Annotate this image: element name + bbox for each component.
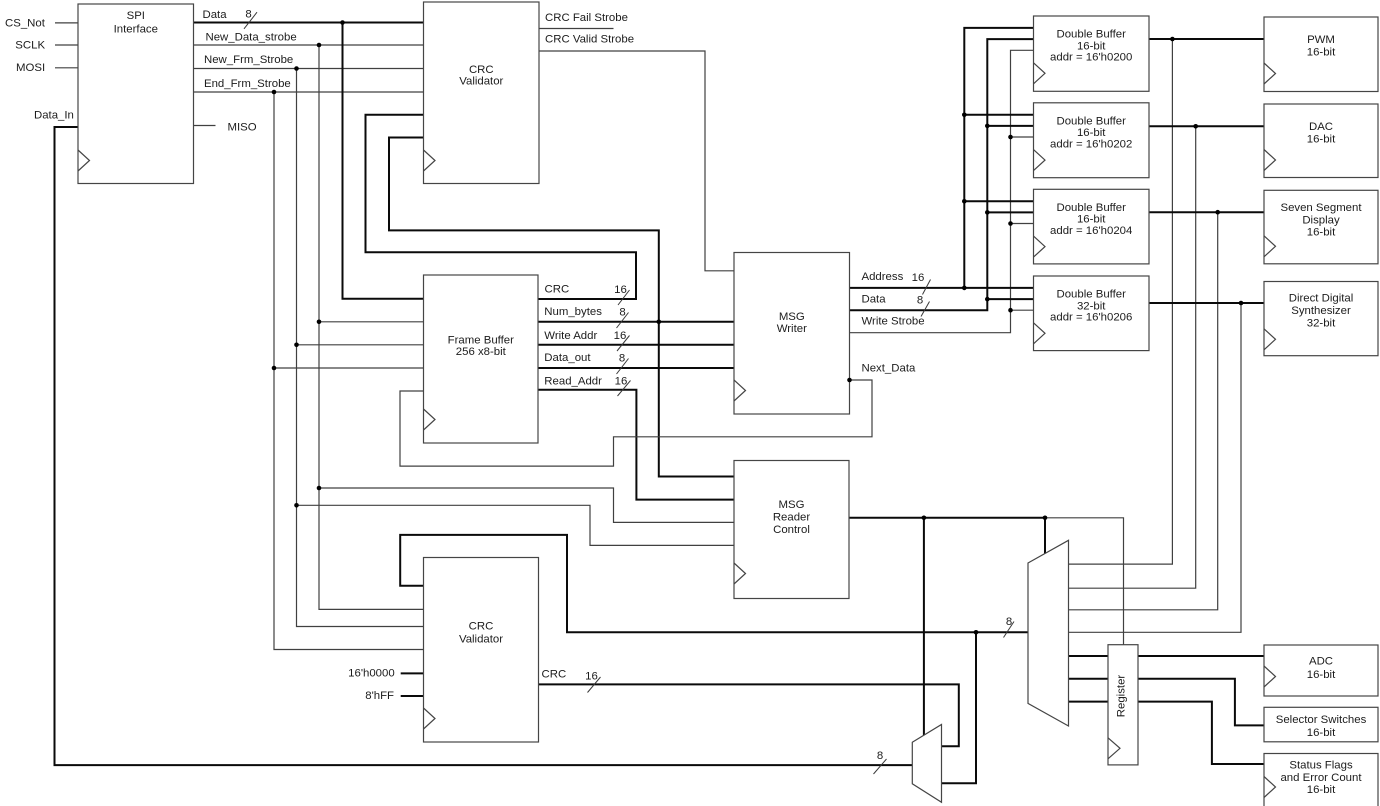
svg-text:Display: Display xyxy=(1302,214,1340,226)
label Data msg xyxy=(862,294,887,306)
label 16 crc2 xyxy=(585,670,598,682)
node New_Frm FB tap xyxy=(294,343,299,348)
label SCLK xyxy=(15,39,45,51)
wire Data bus SPI to CRC Validator U2 xyxy=(194,22,424,24)
svg-text:Data_In: Data_In xyxy=(34,109,74,121)
svg-text:8: 8 xyxy=(877,750,883,762)
svg-text:CRC Valid Strobe: CRC Valid Strobe xyxy=(545,34,634,46)
wire mux input 3 from Seven Segment net xyxy=(1069,212,1218,610)
slash Num_bytes 8 xyxy=(617,313,629,329)
svg-text:Read_Addr: Read_Addr xyxy=(544,375,602,387)
label MISO xyxy=(228,122,257,134)
mux big readback selector xyxy=(1028,540,1069,726)
label 8 mux out xyxy=(1006,616,1012,628)
wire CRC bus Frame Buffer to CRC Validator U2 xyxy=(366,115,637,299)
node New_Frm reader tap xyxy=(294,503,299,508)
svg-text:Data: Data xyxy=(203,9,228,21)
label Num_bytes xyxy=(544,306,602,318)
slash Data_out 8 xyxy=(617,359,629,375)
wire Write Strobe MSG Writer to double buffers xyxy=(850,50,1034,332)
node Data tap xyxy=(340,20,345,25)
block MSG Writer xyxy=(734,253,850,415)
node Address tap DB4 xyxy=(962,286,967,291)
wire Data_out bus to MSG Writer xyxy=(538,367,734,369)
svg-text:End_Frm_Strobe: End_Frm_Strobe xyxy=(204,78,291,90)
svg-text:CRC: CRC xyxy=(542,669,567,681)
label 16'h0000 xyxy=(348,667,395,679)
svg-text:Selector Switches: Selector Switches xyxy=(1276,714,1367,726)
node Num_bytes tap xyxy=(657,320,662,325)
node End_Frm FB tap xyxy=(272,366,277,371)
svg-text:16-bit: 16-bit xyxy=(1307,133,1336,145)
svg-text:16-bit: 16-bit xyxy=(1307,227,1336,239)
svg-text:8: 8 xyxy=(245,9,251,21)
block Register xyxy=(1108,645,1138,765)
svg-text:Double Buffer: Double Buffer xyxy=(1056,289,1126,301)
wire Num_bytes loop to CRC Validator U2 xyxy=(389,138,659,322)
block Double Buffer DB1 addr 16'h0200 xyxy=(1034,16,1150,91)
slash Read_Addr 16 xyxy=(618,381,631,397)
svg-text:Address: Address xyxy=(862,271,904,283)
node WS tap DB4 xyxy=(1008,308,1013,313)
label 16 raddr xyxy=(615,376,628,388)
wire 16'h0000 stub xyxy=(401,672,424,674)
wire Address stub DB2 xyxy=(964,114,1033,116)
wire Num_bytes bus to MSG Writer xyxy=(538,321,734,323)
svg-text:16'h0000: 16'h0000 xyxy=(348,667,395,679)
label 16 crc fb xyxy=(614,284,627,296)
node select small mux tap xyxy=(922,516,927,521)
wire Write Addr bus to MSG Writer xyxy=(538,344,734,346)
wire New_Frm_Strobe SPI to CRC Validator U2 xyxy=(194,68,424,70)
wire MOSI stub xyxy=(55,67,78,69)
node End_Frm tap xyxy=(272,90,277,95)
label Data_In xyxy=(34,109,74,121)
slash CRC2 16 xyxy=(588,677,601,693)
wire Address stub DB3 xyxy=(964,200,1033,202)
svg-text:Frame Buffer: Frame Buffer xyxy=(448,334,514,346)
svg-text:16-bit: 16-bit xyxy=(1307,784,1336,796)
slash CRC 16 xyxy=(618,290,630,305)
svg-text:8'hFF: 8'hFF xyxy=(365,690,394,702)
svg-text:addr = 16'h0206: addr = 16'h0206 xyxy=(1050,312,1132,324)
wire Address bus MSG Writer to DB4 xyxy=(850,287,1034,289)
svg-text:Control: Control xyxy=(773,524,810,536)
label CRC crc2 xyxy=(542,669,567,681)
wire Data_In from small mux to SPI xyxy=(55,127,913,765)
svg-text:SCLK: SCLK xyxy=(15,39,45,51)
svg-text:and Error Count: and Error Count xyxy=(1280,772,1362,784)
svg-text:Seven Segment: Seven Segment xyxy=(1280,202,1362,214)
svg-text:MISO: MISO xyxy=(228,122,257,134)
wire Num_bytes drop to MSG Reader Control xyxy=(659,322,734,477)
svg-text:addr = 16'h0202: addr = 16'h0202 xyxy=(1050,138,1132,150)
label CS_Not xyxy=(5,17,46,29)
node mux output branch tap xyxy=(974,630,979,635)
wire CRC Valid Strobe to MSG Writer xyxy=(539,51,735,271)
label CRC fb xyxy=(545,283,570,295)
node PWM net tap xyxy=(1170,37,1175,42)
svg-text:Num_bytes: Num_bytes xyxy=(544,306,602,318)
wire mux output branch to small mux xyxy=(942,632,977,783)
svg-text:addr = 16'h0200: addr = 16'h0200 xyxy=(1050,52,1132,64)
wire select to big mux xyxy=(1044,518,1046,554)
svg-text:Status Flags: Status Flags xyxy=(1289,759,1353,771)
svg-text:Write Addr: Write Addr xyxy=(544,330,597,342)
wire Data bus drop to Frame Buffer xyxy=(343,23,424,299)
block CRC Validator U2 xyxy=(424,2,540,184)
wire ADC through register to mux xyxy=(1069,655,1265,657)
svg-text:MSG: MSG xyxy=(779,311,805,323)
wire 8'hFF stub xyxy=(401,695,424,697)
slash small mux 8 xyxy=(874,759,887,774)
svg-text:16: 16 xyxy=(614,284,627,296)
svg-text:8: 8 xyxy=(619,353,625,365)
label New_Data_strobe xyxy=(206,32,297,44)
label End_Frm_Strobe xyxy=(204,78,291,90)
label Read_Addr xyxy=(544,375,602,387)
label MOSI xyxy=(16,62,45,74)
svg-text:16: 16 xyxy=(585,670,598,682)
mux small MISO selector xyxy=(912,725,941,803)
label Next_Data xyxy=(862,363,916,375)
svg-text:Validator: Validator xyxy=(459,76,503,88)
wire Data stub DB2 xyxy=(987,125,1033,127)
node Data tap DB2 xyxy=(985,124,990,129)
wire New_Data_strobe branch to MSG Reader Control xyxy=(319,488,734,522)
node DAC net tap xyxy=(1193,124,1198,129)
svg-text:CS_Not: CS_Not xyxy=(5,17,46,29)
svg-text:Direct Digital: Direct Digital xyxy=(1289,293,1354,305)
svg-text:Synthesizer: Synthesizer xyxy=(1291,305,1351,317)
block Seven Segment Display 16-bit xyxy=(1264,190,1378,263)
block Selector Switches 16-bit xyxy=(1264,707,1378,742)
svg-text:Validator: Validator xyxy=(459,633,503,645)
label 8'hFF xyxy=(365,690,394,702)
wire Address bus riser to DB1 xyxy=(964,28,1033,288)
svg-text:16-bit: 16-bit xyxy=(1307,46,1336,58)
node 7seg net tap xyxy=(1215,210,1220,215)
svg-text:SPI: SPI xyxy=(127,10,145,22)
label Write Strobe xyxy=(862,315,925,327)
block SPI Interface xyxy=(78,4,194,184)
node WS tap DB3 xyxy=(1008,221,1013,226)
wire mux input 2 from DAC net xyxy=(1069,126,1196,588)
node Address tap DB3 xyxy=(962,199,967,204)
block CRC Validator U6 xyxy=(424,558,539,743)
wire New_Data_strobe branch to Frame Buffer xyxy=(319,321,424,323)
label Data xyxy=(203,9,228,21)
svg-text:ADC: ADC xyxy=(1309,656,1333,668)
wire register clock from MSG Reader Control xyxy=(1045,518,1124,645)
node select big mux tap xyxy=(1043,516,1048,521)
wire mux input 1 from PWM net xyxy=(1069,39,1173,564)
label 8 data xyxy=(245,9,251,21)
node New_Data tap xyxy=(317,43,322,48)
label New_Frm_Strobe xyxy=(204,54,293,66)
wire Data stub DB4 xyxy=(987,298,1033,300)
svg-text:Next_Data: Next_Data xyxy=(862,363,916,375)
svg-text:16: 16 xyxy=(912,272,925,284)
block DAC 16-bit xyxy=(1264,104,1378,178)
label Address xyxy=(862,271,904,283)
svg-text:32-bit: 32-bit xyxy=(1307,317,1336,329)
wire CS_Not stub xyxy=(55,22,78,24)
wire Selector Switches through register to mux xyxy=(1069,679,1265,726)
wire select to small mux xyxy=(923,518,925,736)
label CRC Valid Strobe xyxy=(545,34,634,46)
svg-text:16-bit: 16-bit xyxy=(1307,669,1336,681)
svg-text:CRC Fail Strobe: CRC Fail Strobe xyxy=(545,12,628,24)
wire New_Data_strobe drop to CRC Validator U6 xyxy=(319,45,424,609)
svg-text:Data_out: Data_out xyxy=(544,352,591,364)
wire SCLK stub xyxy=(55,44,78,46)
node New_Data FB tap xyxy=(317,320,322,325)
node Address tap DB2 xyxy=(962,113,967,118)
wire End_Frm_Strobe SPI to CRC Validator U2 xyxy=(194,91,424,93)
svg-text:Writer: Writer xyxy=(777,323,807,335)
wire End_Frm_Strobe branch to Frame Buffer xyxy=(274,367,424,369)
wire MSG Reader Control select output xyxy=(849,517,1045,519)
svg-text:256 x8-bit: 256 x8-bit xyxy=(456,346,507,358)
wire DB4 output to DDS xyxy=(1149,302,1264,304)
svg-text:PWM: PWM xyxy=(1307,34,1335,46)
wire Status Flags through register to mux xyxy=(1069,702,1265,764)
block Frame Buffer 256 x8-bit xyxy=(424,275,539,443)
wire New_Data_strobe SPI to CRC Validator U2 xyxy=(194,44,424,46)
wire New_Frm_Strobe drop to CRC Validator U6 xyxy=(297,69,424,627)
slash Data 8 xyxy=(244,12,257,29)
svg-text:16: 16 xyxy=(614,330,627,342)
svg-text:8: 8 xyxy=(619,307,625,319)
node Data tap DB3 xyxy=(985,210,990,215)
svg-text:CRC: CRC xyxy=(545,283,570,295)
wire mux output bus to CRC Validator U6 xyxy=(400,535,1028,632)
label 8 data msg xyxy=(917,295,923,307)
block Double Buffer DB3 addr 16'h0204 xyxy=(1034,189,1150,264)
wire CRC Fail Strobe stub xyxy=(539,28,614,30)
svg-text:CRC: CRC xyxy=(469,621,494,633)
wire New_Frm_Strobe branch to Frame Buffer xyxy=(297,344,424,346)
label 8 dout xyxy=(619,353,625,365)
block MSG Reader Control xyxy=(734,461,849,599)
svg-text:8: 8 xyxy=(917,295,923,307)
svg-text:16: 16 xyxy=(615,376,628,388)
node New_Data reader tap xyxy=(317,486,322,491)
slash Data 8 msg xyxy=(921,302,930,317)
wire DB1 output to PWM xyxy=(1149,38,1264,40)
label CRC Fail Strobe xyxy=(545,12,628,24)
svg-text:Write Strobe: Write Strobe xyxy=(862,315,925,327)
slash mux output 8 xyxy=(1004,622,1015,638)
label Data_out xyxy=(544,352,591,364)
node New_Frm tap xyxy=(294,66,299,71)
svg-text:Data: Data xyxy=(862,294,887,306)
wire CRC bus CRC Validator U6 to small mux xyxy=(539,684,959,746)
block Double Buffer DB4 addr 16'h0206 xyxy=(1034,276,1150,351)
label 16 waddr xyxy=(614,330,627,342)
wire Write Strobe stub DB4 xyxy=(1011,309,1034,311)
wire Next_Data loop to Frame Buffer xyxy=(400,380,872,466)
block PWM 16-bit xyxy=(1264,17,1378,92)
wire End_Frm_Strobe drop to CRC Validator U6 xyxy=(274,92,424,650)
label 16 address xyxy=(912,272,925,284)
wire Write Strobe stub DB3 xyxy=(1011,223,1034,225)
wire New_Frm_Strobe branch to MSG Reader Control xyxy=(297,505,735,545)
svg-text:DAC: DAC xyxy=(1309,121,1333,133)
svg-text:Double Buffer: Double Buffer xyxy=(1056,202,1126,214)
svg-text:New_Data_strobe: New_Data_strobe xyxy=(206,32,297,44)
svg-text:MOSI: MOSI xyxy=(16,62,45,74)
svg-text:Double Buffer: Double Buffer xyxy=(1056,116,1126,128)
svg-text:8: 8 xyxy=(1006,616,1012,628)
wire MISO stub xyxy=(194,125,216,127)
wire mux input 4 from DDS net xyxy=(1069,303,1242,632)
svg-text:Reader: Reader xyxy=(773,512,811,524)
svg-text:MSG: MSG xyxy=(779,499,805,511)
svg-text:addr = 16'h0204: addr = 16'h0204 xyxy=(1050,225,1132,237)
svg-text:New_Frm_Strobe: New_Frm_Strobe xyxy=(204,54,293,66)
wire Read_Addr bus to MSG Reader Control xyxy=(538,390,734,500)
label Write Addr xyxy=(544,330,597,342)
svg-text:Double Buffer: Double Buffer xyxy=(1056,29,1126,41)
block Double Buffer DB2 addr 16'h0202 xyxy=(1034,103,1150,178)
node DDS net tap xyxy=(1239,301,1244,306)
svg-text:Register: Register xyxy=(1116,675,1128,718)
block ADC 16-bit xyxy=(1264,645,1378,696)
wire Write Strobe stub DB2 xyxy=(1011,136,1034,138)
wire Data stub DB3 xyxy=(987,211,1033,213)
svg-text:CRC: CRC xyxy=(469,64,494,76)
node WS tap DB2 xyxy=(1008,135,1013,140)
wire DB3 output to Seven Segment Display xyxy=(1149,211,1264,213)
slash Address 16 xyxy=(923,280,931,295)
label 8 small mux xyxy=(877,750,883,762)
block Direct Digital Synthesizer 32-bit xyxy=(1264,282,1378,356)
slash Write Addr 16 xyxy=(617,336,630,352)
wire Data bus MSG Writer riser to DB1 xyxy=(850,39,1034,310)
node Data tap DB4 xyxy=(985,297,990,302)
label 8 num xyxy=(619,307,625,319)
wire DB2 output to DAC xyxy=(1149,125,1264,127)
svg-text:Interface: Interface xyxy=(114,24,158,36)
node Next_Data port xyxy=(847,378,852,383)
svg-text:16-bit: 16-bit xyxy=(1307,727,1336,739)
block Status Flags and Error Count 16-bit xyxy=(1264,754,1378,806)
